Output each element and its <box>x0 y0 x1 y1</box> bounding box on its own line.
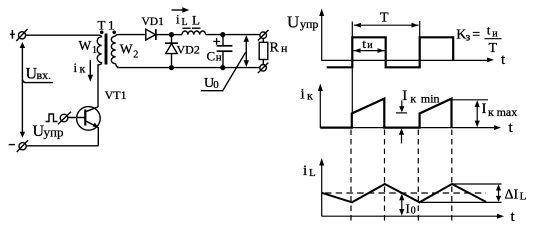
dimension arrow tu <box>354 48 385 53</box>
svg-text:I: I <box>402 88 407 104</box>
current arrow ik <box>88 60 93 82</box>
phase dot W2 <box>112 31 116 35</box>
svg-text:T 1: T 1 <box>98 17 115 32</box>
diode VD2 <box>165 35 178 68</box>
label Ik min <box>402 88 439 105</box>
svg-text:t: t <box>487 23 491 38</box>
wire cap node to output top <box>223 34 260 36</box>
formula Kz <box>456 23 498 57</box>
wire inductor to cap node <box>206 34 223 36</box>
label ik <box>74 60 86 75</box>
svg-text:=: = <box>472 28 480 43</box>
inductor L <box>182 31 206 35</box>
wire secondary bottom rail <box>117 67 260 69</box>
dashed vertical edge2 <box>384 130 386 223</box>
current arrow iL <box>172 7 190 12</box>
wire resistor leads <box>262 38 264 42</box>
measure arrow Ik max <box>475 100 480 127</box>
pulse symbol <box>46 114 58 122</box>
svg-text:к: к <box>488 105 494 119</box>
svg-text:VD2: VD2 <box>177 42 200 56</box>
label minus <box>9 144 15 145</box>
voltage arrow U0 <box>244 35 249 67</box>
svg-text:1: 1 <box>92 45 97 56</box>
svg-text:R: R <box>270 41 280 56</box>
terminal base control <box>58 112 71 124</box>
svg-text:T: T <box>380 11 389 26</box>
resistor Rn <box>259 42 268 59</box>
label plus <box>10 30 15 39</box>
underline Uvx <box>22 79 53 83</box>
plot1 y axis <box>319 9 324 61</box>
svg-text:U: U <box>287 13 299 32</box>
svg-text:i: i <box>176 12 180 27</box>
wire node to inductor <box>172 34 183 36</box>
label Ik max <box>482 101 518 119</box>
svg-text:и: и <box>492 28 498 39</box>
winding W2 <box>111 35 119 68</box>
label Rn <box>270 41 289 56</box>
svg-text:I: I <box>406 201 410 216</box>
underline and leader U0 <box>201 53 246 91</box>
svg-text:i: i <box>301 87 305 103</box>
svg-text:к: к <box>410 91 416 105</box>
plot3 waveform <box>322 184 486 202</box>
measure Ik min lower arrow <box>399 128 404 143</box>
plot1 waveform <box>327 37 454 67</box>
svg-text:max: max <box>497 105 518 119</box>
svg-text:упр: упр <box>44 125 64 140</box>
measure Ik min upper arrow <box>399 101 404 113</box>
svg-text:t: t <box>362 36 366 51</box>
plot3 label iL <box>303 163 316 179</box>
svg-text:L: L <box>182 17 188 28</box>
plot3 x axis <box>322 214 504 219</box>
svg-text:T: T <box>489 41 498 56</box>
plot2 y axis <box>318 84 323 129</box>
svg-text:min: min <box>421 91 440 105</box>
wire base <box>68 117 85 119</box>
node junction bottom cap <box>220 65 225 70</box>
winding W1 <box>97 35 101 65</box>
svg-text:W: W <box>79 38 92 53</box>
reference line dIL bottom <box>420 201 502 203</box>
plot2 x axis <box>320 125 501 130</box>
reference line Ik min level <box>396 112 407 114</box>
svg-text:и: и <box>367 40 373 51</box>
terminal plus input <box>16 29 27 41</box>
label Cn <box>207 49 222 64</box>
label Uvx <box>26 66 52 83</box>
svg-text:н: н <box>281 41 288 55</box>
node junction bottom VD2 <box>169 65 174 70</box>
label iL <box>176 12 188 29</box>
node junction top VD2 <box>169 32 174 37</box>
label W1 <box>79 38 98 56</box>
reference line Ik max level <box>452 99 489 101</box>
wire secondary top to VD1 <box>118 34 146 36</box>
wire emitter <box>97 127 99 146</box>
plot1 label Uupr <box>287 13 318 32</box>
svg-text:C: C <box>207 49 216 64</box>
svg-text:вх.: вх. <box>37 68 52 82</box>
label I0 <box>406 201 416 217</box>
label tu <box>362 36 373 51</box>
extension line rising edge 2 <box>419 21 421 37</box>
svg-text:i: i <box>303 163 307 179</box>
transistor VT1 <box>77 107 101 131</box>
diode VD1 <box>146 29 156 40</box>
phase dot W1 <box>100 31 104 35</box>
svg-text:н: н <box>216 52 222 64</box>
dimension arrow T <box>354 23 419 28</box>
label dIL <box>505 188 527 203</box>
svg-text:L: L <box>520 191 527 203</box>
plot1 x axis <box>322 57 494 62</box>
svg-text:0: 0 <box>213 79 219 91</box>
connector line edge1 plot1 to plot2 <box>351 68 353 113</box>
extension line rising edge 1 <box>351 22 353 38</box>
wire bottom rail primary <box>26 145 98 147</box>
terminal output bottom <box>258 63 269 74</box>
svg-text:I: I <box>482 101 487 117</box>
label U0 <box>204 76 219 91</box>
svg-text:W: W <box>120 42 133 57</box>
svg-text:упр: упр <box>300 17 318 31</box>
voltage arrow Uvx <box>20 42 25 138</box>
svg-text:з: з <box>466 30 471 44</box>
measure arrow I0 <box>399 194 404 216</box>
fraction bar Kz <box>485 38 502 40</box>
svg-text:к: к <box>307 89 313 103</box>
label W2 <box>120 42 139 61</box>
terminal output top <box>258 30 269 41</box>
wire collector <box>97 64 99 107</box>
svg-text:VD1: VD1 <box>142 16 165 28</box>
plot3 y axis <box>319 158 324 216</box>
dashed vertical edge1 <box>350 130 352 223</box>
label plus cap <box>213 38 220 45</box>
underline iL <box>183 27 191 29</box>
svg-text:ΔI: ΔI <box>505 188 519 203</box>
transformer core <box>105 34 108 65</box>
label Uupr <box>33 123 64 140</box>
svg-text:L: L <box>192 13 200 28</box>
plot2 label ik <box>301 87 314 103</box>
svg-text:к: к <box>80 61 86 75</box>
terminal minus input <box>17 140 28 152</box>
wire VD1 to node <box>157 34 172 36</box>
svg-text:L: L <box>309 167 316 179</box>
dashed vertical edge4 <box>451 130 453 223</box>
wire top rail primary <box>26 34 100 36</box>
svg-text:0: 0 <box>411 206 416 217</box>
svg-text:i: i <box>74 60 78 75</box>
svg-text:2: 2 <box>133 50 138 61</box>
plot2 waveform <box>320 99 451 128</box>
dashed midline I0 level <box>325 192 486 194</box>
reference line dIL top <box>452 183 502 185</box>
underline L <box>192 27 201 29</box>
dashed vertical edge3 <box>417 130 419 223</box>
measure arrow dIL <box>496 185 501 202</box>
node junction top cap <box>220 32 225 37</box>
svg-text:VT1: VT1 <box>105 88 127 102</box>
capacitor Cn <box>217 35 233 68</box>
